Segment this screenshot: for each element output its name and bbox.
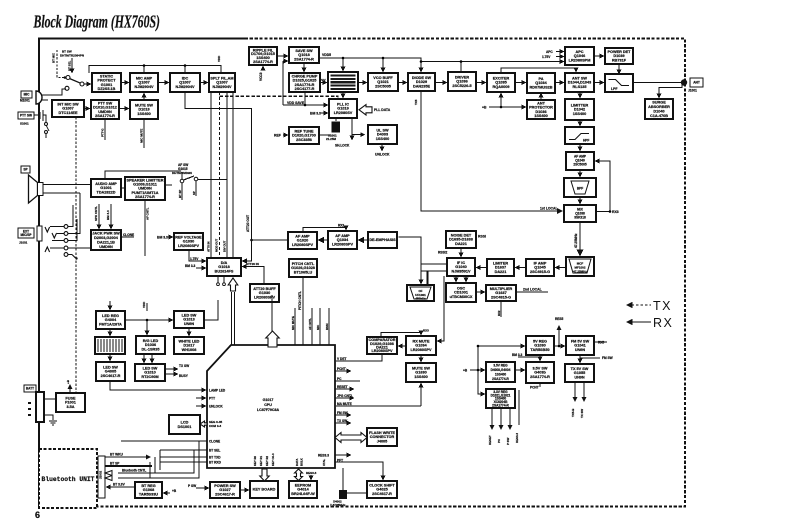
power region wires [470, 326, 607, 429]
svg-text:uTBCM30CX: uTBCM30CX [450, 295, 473, 299]
svg-text:D1637: D1637 [495, 266, 506, 270]
mcf box trapezoid [566, 257, 594, 276]
driver [448, 72, 476, 91]
wire: pll region [283, 61, 382, 151]
svg-text:AUDIO AMP: AUDIO AMP [95, 182, 117, 186]
wire: tx mod dashed [219, 92, 221, 258]
flash write double arrow [335, 433, 367, 443]
svg-text:FM 5V SW: FM 5V SW [571, 339, 590, 343]
multiplier [486, 285, 516, 301]
svg-text:RX: RX [653, 316, 673, 330]
svg-text:D1029: D1029 [416, 80, 427, 84]
wire: top-left vdd bus [89, 66, 221, 74]
svg-text:G1637: G1637 [495, 291, 506, 295]
svg-text:G1017: G1017 [263, 398, 274, 402]
cpu left pin labels [110, 390, 207, 478]
svg-text:Bluetooth UNIT: Bluetooth UNIT [42, 476, 95, 483]
mic-box [21, 91, 32, 98]
wire: rx chain down [579, 120, 581, 256]
svg-text:VCC9: VCC9 [259, 72, 263, 81]
mix box [564, 205, 596, 222]
ext jack circles [19, 193, 91, 260]
power-sw [210, 482, 240, 498]
svg-text:UNLOCK: UNLOCK [375, 153, 390, 157]
svg-text:1SS400: 1SS400 [376, 137, 390, 141]
d/a hollow arrow from cpu [232, 292, 235, 345]
svg-text:2SA1774-R: 2SA1774-R [95, 114, 115, 118]
eeprom [289, 481, 317, 498]
svg-text:NJM3591V: NJM3591V [452, 270, 471, 274]
svg-text:1SS400: 1SS400 [414, 375, 428, 379]
svg-text:FM SW: FM SW [337, 411, 348, 415]
svg-text:ANT SW: ANT SW [572, 76, 587, 80]
de-emphasis [368, 232, 397, 248]
svg-text:BT1065LU: BT1065LU [294, 271, 313, 275]
bt-reg [135, 482, 162, 498]
svg-text:DL-1SR35: DL-1SR35 [142, 348, 160, 352]
wire: surge tap [659, 84, 682, 98]
wire: vdd5 bus from save-sw [319, 58, 421, 72]
crystal X4002 [322, 459, 367, 507]
int-mic-sw [52, 100, 84, 117]
mute-sw-rx [406, 363, 436, 382]
svg-text:POWER SW: POWER SW [214, 484, 236, 488]
svg-text:TX 5V SW: TX 5V SW [571, 367, 589, 371]
svg-text:Block Diagram (HX760S): Block Diagram (HX760S) [33, 13, 160, 32]
svg-text:MUTE SW: MUTE SW [412, 366, 430, 370]
svg-text:D2003,G2004: D2003,G2004 [94, 236, 119, 240]
lpf symbol [605, 74, 633, 92]
limiter-rx [487, 259, 514, 276]
svg-text:UNLOCK: UNLOCK [209, 405, 223, 409]
mic-mute-sw [130, 100, 158, 119]
svg-text:PTT SW: PTT SW [20, 114, 32, 118]
svg-text:RD07MUS2B: RD07MUS2B [530, 86, 553, 90]
svg-text:APC: APC [575, 50, 583, 54]
surge [645, 99, 673, 119]
svg-text:BT WKU: BT WKU [110, 453, 123, 457]
svg-text:DA221: DA221 [495, 270, 507, 274]
svg-text:2SA1774-R: 2SA1774-R [253, 60, 273, 64]
svg-text:G1013: G1013 [183, 318, 194, 322]
ripple-filter [249, 47, 277, 65]
svg-text:+B: +B [463, 369, 468, 373]
svg-text:IF AMP: IF AMP [534, 261, 547, 265]
svg-text:DS1001: DS1001 [178, 425, 192, 429]
svg-text:RQA0009: RQA0009 [493, 85, 510, 89]
bluetooth unit [39, 449, 105, 508]
tx-5v-sw [565, 364, 594, 382]
svg-text:LR2080SPV: LR2080SPV [371, 349, 393, 353]
svg-text:+B: +B [482, 106, 487, 110]
svg-text:EEPROM: EEPROM [295, 483, 311, 487]
cf box trapezoid [407, 285, 434, 301]
key-board [250, 481, 278, 498]
svg-text:G4014: G4014 [297, 488, 309, 492]
svg-text:REF TUNE: REF TUNE [295, 129, 314, 133]
svg-text:Q1045: Q1045 [534, 266, 545, 270]
svg-text:RX5: RX5 [598, 341, 604, 345]
svg-text:JACK PWR SW: JACK PWR SW [92, 232, 120, 236]
svg-text:MA MUTE: MA MUTE [337, 402, 352, 406]
svg-text:PLL IC: PLL IC [337, 102, 349, 106]
cpu right pins [335, 354, 421, 480]
svg-text:47.25MHz: 47.25MHz [573, 270, 587, 274]
svg-text:G1018: G1018 [218, 265, 229, 269]
limitter-tx [565, 99, 594, 120]
svg-text:BT SEL: BT SEL [68, 60, 72, 71]
da [207, 258, 241, 276]
svg-text:1SS400: 1SS400 [534, 114, 548, 118]
wire: +B exciter/pa [489, 92, 580, 107]
svg-text:ATT20 OUT: ATT20 OUT [246, 215, 250, 232]
svg-text:2SC5226-5: 2SC5226-5 [452, 84, 471, 88]
svg-text:M1001: M1001 [20, 99, 30, 103]
svg-text:BM 3.3: BM 3.3 [512, 353, 523, 357]
svg-text:P SW: P SW [188, 484, 196, 488]
svg-text:AF CNTL: AF CNTL [146, 207, 150, 220]
svg-text:D4003: D4003 [377, 133, 388, 137]
svg-text:UMD9N: UMD9N [99, 245, 113, 249]
rg-led [136, 336, 165, 354]
svg-text:G1001: G1001 [100, 186, 111, 190]
crystal X1001 [326, 122, 340, 142]
svg-text:WHITE LED: WHITE LED [179, 339, 200, 343]
svg-text:1st LOCAL: 1st LOCAL [540, 207, 558, 211]
svg-text:MIC/SP: MIC/SP [21, 233, 33, 237]
svg-text:6: 6 [35, 510, 40, 520]
svg-text:G1010: G1010 [144, 371, 155, 375]
ptt-key-box [18, 112, 34, 119]
svg-text:G1019: G1019 [337, 107, 348, 111]
svg-text:PLL DATA: PLL DATA [374, 108, 391, 112]
svg-text:LED SW: LED SW [182, 313, 197, 317]
svg-text:LR2080SPV: LR2080SPV [332, 243, 354, 247]
bt wires [105, 441, 249, 493]
att20-buff [250, 284, 279, 302]
speaker symbol [29, 175, 92, 203]
ext-jack-box [18, 228, 34, 238]
svg-text:TX5-B: TX5-B [571, 409, 575, 417]
svg-text:VCO BUFF: VCO BUFF [373, 76, 393, 80]
if-ic [447, 258, 475, 276]
apc [565, 47, 594, 65]
svg-text:MIC: MIC [316, 325, 320, 330]
svg-text:P SW: P SW [506, 437, 510, 445]
backlight led hatched box [95, 337, 125, 354]
svg-text:ANT: ANT [693, 81, 700, 85]
svg-text:G1027: G1027 [219, 488, 230, 492]
wire: att buff out [263, 302, 265, 312]
svg-text:R/G LED: R/G LED [143, 339, 159, 343]
svg-text:D1040: D1040 [653, 109, 664, 113]
lcd [169, 415, 200, 434]
af amp rx [566, 152, 594, 170]
svg-text:AF AMP: AF AMP [295, 234, 310, 238]
svg-text:DA221: DA221 [455, 242, 467, 246]
svg-text:BT MIC: BT MIC [52, 52, 56, 63]
wire: ref voltage [168, 237, 206, 268]
svg-text:V DET: V DET [337, 357, 346, 361]
keyboard arrows [260, 469, 269, 481]
svg-text:J2002: J2002 [99, 470, 103, 479]
svg-text:BT 3.3V: BT 3.3V [113, 483, 126, 487]
svg-text:2SC4177-R: 2SC4177-R [295, 87, 315, 91]
ul-sw [368, 125, 397, 144]
pll data hollow arrow [359, 105, 391, 115]
osc [446, 283, 476, 302]
svg-text:IF IC: IF IC [457, 261, 465, 265]
svg-text:COM 0-3: COM 0-3 [209, 424, 222, 428]
svg-text:BR24L64F-W: BR24L64F-W [291, 492, 315, 496]
svg-text:2SC4617-R: 2SC4617-R [215, 493, 235, 497]
svg-text:21.25M: 21.25M [326, 137, 337, 141]
svg-text:G1007: G1007 [62, 107, 73, 111]
svg-text:LED SW: LED SW [143, 366, 158, 370]
svg-text:AF CNTL: AF CNTL [308, 318, 312, 330]
svg-text:MIC MUTE: MIC MUTE [140, 129, 144, 143]
svg-text:1SS400: 1SS400 [495, 372, 507, 376]
d/a bottom stubs [218, 276, 224, 283]
svg-text:IDC: IDC [182, 76, 189, 80]
33v-reg [486, 389, 515, 408]
svg-text:D1617: D1617 [183, 344, 194, 348]
svg-text:2SC4915-G: 2SC4915-G [491, 296, 511, 300]
svg-text:D/A: D/A [221, 261, 228, 265]
wire: audio amp / speaker [121, 185, 172, 188]
svg-text:3.5V SW: 3.5V SW [533, 366, 548, 370]
vco-buff [368, 73, 398, 91]
comparator [367, 337, 397, 354]
svg-text:BT SP: BT SP [110, 462, 120, 466]
svg-text:BPF: BPF [577, 187, 583, 191]
svg-text:FM SW: FM SW [602, 356, 613, 360]
ant-box [690, 78, 703, 87]
svg-text:SAVE SW: SAVE SW [295, 49, 313, 53]
svg-text:PA: PA [539, 77, 544, 81]
svg-text:DTC114EE: DTC114EE [59, 111, 78, 115]
wire: splt fil out verticals [185, 92, 252, 261]
svg-text:ATT20 IN: ATT20 IN [246, 262, 259, 266]
ptt-sw [91, 100, 119, 119]
cpu corner connector blob [229, 346, 236, 353]
svg-text:DHTN/UMD9N: DHTN/UMD9N [172, 171, 192, 175]
svg-text:Q1007: Q1007 [179, 81, 190, 85]
svg-text:BM 3.3: BM 3.3 [185, 264, 196, 268]
ant-sw [565, 73, 594, 92]
svg-text:LR2080SPV: LR2080SPV [178, 244, 200, 248]
exciter [487, 73, 515, 92]
svg-text:Q1036: Q1036 [456, 80, 467, 84]
svg-text:Q1018: Q1018 [298, 53, 309, 57]
svg-text:DE-EMPHASIS: DE-EMPHASIS [369, 238, 396, 242]
svg-text:LR2080SPM: LR2080SPM [569, 59, 591, 63]
fm-5v-sw [566, 336, 594, 355]
svg-text:LCD: LCD [181, 421, 189, 425]
svg-text:G1055: G1055 [574, 371, 585, 375]
svg-text:BU2614FS: BU2614FS [215, 270, 234, 274]
svg-text:D1020,G1700: D1020,G1700 [292, 134, 316, 138]
svg-text:VDD SAVE: VDD SAVE [287, 101, 305, 105]
svg-text:RX3: RX3 [612, 210, 619, 214]
svg-text:G1020: G1020 [297, 239, 308, 243]
flash-conn [367, 428, 397, 446]
led-sw1 [174, 311, 204, 328]
noise-det [446, 231, 476, 248]
svg-text:Q1034: Q1034 [535, 81, 547, 85]
svg-text:RX MUTE: RX MUTE [412, 339, 430, 343]
svg-text:UN9N: UN9N [575, 348, 586, 352]
svg-text:NJM2904V: NJM2904V [176, 85, 195, 89]
svg-text:G403b: G403b [534, 371, 546, 375]
svg-text:PITCH CNTL: PITCH CNTL [292, 262, 315, 266]
svg-text:PCNT: PCNT [530, 386, 539, 390]
svg-text:VCV: VCV [320, 78, 326, 82]
svg-text:TX SW: TX SW [179, 364, 189, 368]
wire: tx chain arrows [320, 78, 604, 83]
svg-text:LAMP LED: LAMP LED [209, 389, 226, 393]
svg-text:PTT-G: PTT-G [101, 128, 105, 137]
svg-text:INT MIC SW: INT MIC SW [57, 102, 79, 106]
svg-text:C1A-470B: C1A-470B [650, 114, 668, 118]
af-amp2 [288, 232, 317, 249]
svg-text:G1630: G1630 [415, 371, 426, 375]
svg-text:J1001: J1001 [19, 241, 28, 245]
save-sw [289, 47, 319, 63]
svg-text:DIODE SW: DIODE SW [412, 76, 432, 80]
svg-text:BT TXD: BT TXD [209, 456, 221, 460]
wire: cf to de-emphasis [243, 228, 429, 286]
svg-text:TDA2822D: TDA2822D [97, 191, 116, 195]
svg-text:CLOCK SHIFT: CLOCK SHIFT [369, 483, 395, 487]
svg-text:RLS135: RLS135 [573, 85, 587, 89]
svg-text:J1001: J1001 [688, 89, 697, 93]
svg-text:REF VOLTAGE: REF VOLTAGE [175, 235, 202, 239]
svg-text:TAR5SB50: TAR5SB50 [530, 348, 549, 352]
svg-text:G1026,G1028: G1026,G1028 [291, 266, 315, 270]
svg-text:S1001: S1001 [20, 122, 29, 126]
cpu top stubs [272, 295, 329, 345]
protector [527, 100, 555, 119]
svg-text:G1040: G1040 [455, 265, 466, 269]
svg-text:MOD OUT: MOD OUT [215, 239, 219, 252]
svg-text:DIV OUT: DIV OUT [223, 240, 227, 252]
svg-text:RB731F: RB731F [612, 59, 627, 63]
svg-text:DA221,1B: DA221,1B [97, 240, 115, 244]
svg-text:CPU: CPU [264, 403, 272, 407]
svg-text:D1019: D1019 [138, 108, 149, 112]
ref-voltage [174, 233, 203, 250]
svg-text:MUTE SW: MUTE SW [135, 103, 153, 107]
mic-amp [130, 73, 158, 92]
svg-text:RES3.3: RES3.3 [306, 471, 317, 475]
svg-text:BM 3.3: BM 3.3 [106, 210, 110, 220]
led-reg [96, 311, 125, 329]
svg-text:D1635-D1638: D1635-D1638 [449, 238, 473, 242]
svg-text:RX2: RX2 [338, 224, 344, 228]
svg-text:2SC4915-G: 2SC4915-G [530, 270, 550, 274]
svg-text:RX3: RX3 [423, 329, 429, 333]
wire: noise det / if ic [421, 248, 548, 292]
svg-text:KEY R2: KEY R2 [265, 456, 269, 466]
svg-text:HPF: HPF [583, 139, 589, 143]
svg-text:G1034: G1034 [415, 344, 427, 348]
svg-text:ATT5 IN: ATT5 IN [207, 242, 211, 252]
power-det [605, 48, 633, 64]
svg-text:VDD: VDD [142, 301, 146, 308]
svg-text:G1030: G1030 [183, 240, 194, 244]
led-sw3 [135, 364, 165, 381]
cpu pll data up arrow [266, 331, 279, 347]
svg-text:WH1008: WH1008 [182, 348, 197, 352]
svg-text:2SC4617-R: 2SC4617-R [101, 374, 121, 378]
svg-text:KEY C0-3: KEY C0-3 [271, 453, 275, 466]
svg-text:D1044,D1043: D1044,D1043 [568, 81, 591, 85]
svg-text:G4004: G4004 [105, 318, 117, 322]
svg-text:2SC4617-R: 2SC4617-R [372, 492, 392, 496]
svg-text:RES3.3: RES3.3 [515, 433, 519, 443]
svg-text:1.75V: 1.75V [542, 55, 551, 59]
svg-text:3.5A: 3.5A [66, 405, 74, 409]
cpu box [207, 345, 335, 468]
svg-text:PITCH CNTL: PITCH CNTL [298, 291, 302, 310]
svg-text:BATT: BATT [26, 387, 34, 391]
svg-text:ABSORBER: ABSORBER [648, 105, 670, 109]
svg-text:7.3728MHz: 7.3728MHz [330, 503, 346, 507]
svg-text:DRIVER: DRIVER [455, 75, 470, 79]
svg-text:1SS400: 1SS400 [573, 112, 587, 116]
svg-text:Q1007: Q1007 [138, 81, 149, 85]
lcd hollow arrow [200, 421, 207, 427]
if-amp [526, 259, 554, 276]
svg-text:MIC: MIC [24, 93, 31, 97]
rx-mute [406, 336, 436, 355]
svg-text:2SA1774-R: 2SA1774-R [294, 58, 314, 62]
svg-text:NJM2904V: NJM2904V [213, 85, 232, 89]
svg-text:KEY R1: KEY R1 [259, 456, 263, 466]
svg-text:TX SW: TX SW [337, 419, 347, 423]
svg-text:DAN235E: DAN235E [413, 85, 431, 89]
led-sw2 [96, 362, 125, 381]
svg-text:Q1007: Q1007 [216, 81, 227, 85]
static-protect [92, 73, 121, 92]
35v-reg [486, 362, 515, 382]
svg-text:LR2080SPV: LR2080SPV [292, 243, 314, 247]
svg-text:3.5V REG: 3.5V REG [493, 364, 508, 368]
svg-text:TX5: TX5 [414, 99, 418, 105]
wire: rx if chain left arrows [477, 267, 567, 269]
svg-text:DZ2S5.1B: DZ2S5.1B [98, 87, 116, 91]
svg-text:1.75V: 1.75V [190, 257, 199, 261]
svg-text:LR2080SPV: LR2080SPV [410, 348, 432, 352]
svg-text:PCNT: PCNT [337, 367, 346, 371]
svg-text:BULK: BULK [300, 458, 304, 466]
svg-text:2SA1774-R: 2SA1774-R [492, 403, 509, 407]
svg-text:G1041: G1041 [574, 344, 585, 348]
svg-text:BM 3.3: BM 3.3 [310, 112, 321, 116]
svg-text:Q1034: Q1034 [337, 238, 349, 242]
batt-box [24, 385, 36, 392]
svg-text:VDD5: VDD5 [322, 53, 331, 57]
svg-text:CLONE: CLONE [209, 440, 220, 444]
5v-reg [526, 336, 554, 355]
svg-text:CD1001: CD1001 [454, 291, 468, 295]
svg-text:2SA1774-R: 2SA1774-R [135, 195, 155, 199]
bpf box [564, 178, 596, 197]
svg-text:SH.LOCK: SH.LOCK [335, 144, 350, 148]
svg-text:Bluetooth CNTL: Bluetooth CNTL [122, 469, 146, 473]
svg-text:MIC AMP: MIC AMP [136, 76, 153, 80]
